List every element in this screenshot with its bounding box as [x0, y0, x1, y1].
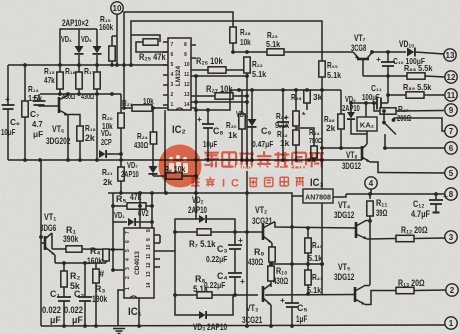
junction R22 top [245, 50, 249, 54]
junction KA2 top [364, 101, 368, 105]
diode VD4 [75, 46, 84, 54]
junction R2 top [62, 261, 66, 265]
resistor R17 [94, 72, 100, 89]
transistor VT3 [263, 284, 271, 305]
wire R18 top lead [68, 115, 80, 127]
wire C9 bottom lead [282, 126, 284, 160]
resistor R32 [293, 130, 299, 145]
wire R16 top lead [78, 65, 80, 72]
junction on emitter net [290, 262, 294, 266]
wire R19 top lead [112, 35, 117, 37]
wire R9 bottom lead [271, 262, 273, 264]
resistor R18 [77, 126, 83, 141]
junction on supply bus [58, 63, 62, 67]
wire emitter to R88 [363, 75, 407, 77]
wire R18 bottom lead [79, 141, 81, 160]
wire R41 bottom lead [307, 285, 309, 294]
resistor R25 [143, 39, 158, 45]
resistor R10 [268, 266, 274, 281]
wire C4 bottom lead [234, 277, 236, 295]
resistor R87 [380, 108, 396, 114]
junction VD2 right on R7 wire [233, 230, 237, 234]
wire R13 to terminal 2 [414, 289, 446, 292]
junction R98 top [305, 88, 309, 92]
junction R84 bottom [312, 158, 316, 162]
wire net6 right part [385, 147, 445, 149]
capacitor C4 [228, 273, 242, 277]
wire R3 bottom lead [95, 283, 97, 326]
junction on emitter bus [294, 158, 298, 162]
wire R89 to terminal 11 [424, 94, 445, 96]
wire R5 right rail [151, 193, 153, 228]
resistor R23 [132, 105, 152, 111]
wire R2 top lead [63, 263, 65, 271]
junction on 193 bus [138, 191, 142, 195]
resistor R13 [396, 287, 414, 293]
junction VD9 top [349, 101, 353, 105]
junction on emitter bus [240, 158, 244, 162]
wire base drive [233, 51, 353, 53]
junction VT7 collector [370, 50, 374, 54]
wire R10 bottom lead [270, 281, 272, 287]
resistor R11 [367, 201, 373, 216]
wire R23 wire [124, 107, 168, 109]
junction y102 right [245, 100, 249, 104]
junction on emitter bus [38, 158, 42, 162]
capacitor C11 [377, 97, 381, 110]
wire C7 to VT6 base [39, 105, 58, 106]
wire to VD10 [388, 51, 406, 53]
wire R95 bottom rail [321, 77, 323, 294]
wire C7 top lead [38, 94, 40, 101]
junction VT1 base [39, 235, 43, 239]
junction VD6 to R20 rail [119, 152, 123, 156]
terminal pin 5 [445, 167, 457, 179]
junction on supply bus [122, 63, 126, 67]
resistor R26 [208, 67, 226, 73]
resistor R6 [166, 173, 182, 179]
wire IC2 right pin stubs [191, 45, 196, 108]
wire diode string top [60, 29, 97, 65]
capacitor C12 end bar [433, 212, 440, 214]
junction on net 6 rail [320, 146, 324, 150]
transistor VT8 [362, 144, 370, 162]
junction line A to R23 [122, 106, 126, 110]
wire R15 top lead [59, 65, 61, 72]
junction VD6 rail bottom [95, 158, 99, 162]
wire rail IC2 pin1 down [164, 110, 166, 193]
arrow VT6 emitter [64, 112, 69, 116]
wire R84 bottom lead [313, 158, 315, 160]
junction R87 corner [372, 101, 376, 105]
junction R89 node [386, 93, 390, 97]
wire VD6 left lead [96, 94, 98, 160]
junction R5 right [150, 204, 154, 208]
wire VD2 loop [175, 219, 199, 232]
wire C5 bottom lead [291, 307, 293, 326]
resistor R15 [57, 72, 63, 89]
junction on emitter bus [307, 158, 311, 162]
wire R20 bottom lead [120, 128, 122, 167]
junction R6 right [194, 174, 198, 178]
wire feedback line B to R95 [131, 21, 322, 65]
junction on ground bus [62, 324, 66, 328]
wire KA2 top lead [365, 103, 367, 117]
wire R5 right lead [146, 205, 152, 207]
terminal pin 7 [445, 125, 457, 137]
capacitor C9 [277, 122, 289, 126]
wire R14 bottom lead [24, 117, 26, 160]
resistor R14 [22, 101, 28, 117]
op-amp IC2 LM324 body [168, 38, 191, 110]
junction mid bus [250, 88, 254, 92]
transistor VT5 [355, 286, 370, 305]
wire R5 wire [113, 205, 127, 207]
junction R7 left [173, 230, 177, 234]
resistor R28 [230, 27, 236, 43]
wire R87 wire corner [374, 103, 380, 111]
diode VD3 [199, 311, 206, 319]
junction C12 node [434, 192, 438, 196]
wire IC1 pin link a [159, 235, 161, 243]
terminal pin 13 [444, 49, 456, 61]
wire VD3 loop left [175, 232, 199, 315]
wire VT5 base [265, 294, 355, 297]
junction R5 left [111, 204, 115, 208]
wire mid bus upper [230, 89, 341, 91]
terminal pin 6 [445, 142, 457, 154]
wire R24 bottom lead [152, 144, 154, 166]
junction rail top [194, 74, 198, 78]
wire C8 top lead [207, 110, 209, 124]
wire VT8 emitter to net5 [370, 162, 445, 173]
wire R32 bottom lead [295, 145, 297, 160]
wire main rail x247 [246, 73, 248, 326]
wire collector rail VT4-VT5 [369, 216, 371, 285]
junction on bias bus [110, 92, 114, 96]
capacitor C5 [285, 303, 299, 307]
wire IC3 right pin [333, 194, 346, 197]
wire base bias bus [40, 93, 121, 95]
junction on 193 bus [164, 191, 168, 195]
junction on emitter bus [245, 158, 249, 162]
resistor R2 [61, 271, 67, 287]
wire net6 left part [322, 147, 361, 149]
resistor R4 [103, 249, 109, 261]
capacitor C7 [33, 101, 46, 105]
wire VT6 collector [59, 94, 68, 100]
diode VD9 [347, 112, 355, 119]
pin numbers IC1 right [146, 229, 152, 288]
wire KA2 bottom lead [366, 131, 368, 137]
wire R1 right lead [82, 248, 113, 251]
junction contact top [382, 109, 386, 113]
junction R41 bottom [306, 292, 310, 296]
resistor R89 [406, 92, 424, 98]
wire R40 bottom lead [307, 253, 309, 264]
wire R16 bottom lead [78, 89, 80, 94]
wire C11 wire [351, 102, 377, 104]
relay coil KA2 [357, 117, 377, 131]
wire IC2 left pin stubs [163, 42, 168, 105]
capacitor C10 [381, 62, 395, 66]
resistor R16 [76, 72, 82, 89]
wire R26 to rail [226, 69, 247, 71]
ground symbol [113, 329, 125, 334]
wire feedback line A to R28 [124, 12, 233, 108]
wire R2 bottom lead [63, 287, 65, 297]
wire R84 tap [296, 128, 314, 146]
resistor R1 [66, 246, 82, 252]
wire C12 stub [435, 204, 437, 212]
wire R20 top lead [120, 94, 122, 113]
wire C11 right [381, 102, 388, 104]
diode VD7 [149, 166, 158, 174]
junction on supply bus [129, 63, 133, 67]
wire R17 top lead [96, 65, 98, 72]
wire IC1 top pin a [139, 193, 141, 228]
wire VD4 top lead [78, 29, 80, 46]
flip-flop IC1 CD4013 body [124, 228, 154, 298]
pin numbers IC2 left [171, 42, 174, 108]
watermark main text (fake CJK glyphs) [204, 151, 324, 167]
wire R5 left rail [112, 193, 114, 271]
junction on ground bus [290, 324, 294, 328]
junction on supply bus [110, 63, 114, 67]
wire VT7 emitter down [362, 60, 364, 76]
wire VT3 emitter down [270, 305, 272, 326]
terminal pin 8 [445, 188, 457, 200]
pin numbers IC1 left [125, 231, 131, 290]
junction mid bus [320, 88, 324, 92]
wire VT2 emitter [271, 243, 273, 247]
wire C10 top lead [387, 52, 389, 62]
wire C9 top lead [282, 90, 284, 122]
capacitor C3 [228, 245, 242, 249]
wire IC1 pin link b [160, 250, 175, 252]
transistor VT7 [353, 52, 372, 59]
junction on emitter bus [194, 158, 198, 162]
capacitor C12 [429, 200, 443, 204]
transistor VT6 [58, 97, 61, 113]
pin numbers IC2 right [184, 42, 190, 108]
wire C1 bottom lead [63, 301, 65, 326]
wire R86 top lead [340, 90, 342, 114]
wire R4 bottom lead [105, 261, 107, 263]
wire bus net to IC3 [108, 193, 303, 196]
junction on emitter bus [206, 158, 210, 162]
junction on emitter bus [78, 158, 82, 162]
wire R19 vertical leads [111, 36, 113, 46]
junction on bias bus [66, 92, 70, 96]
wire contact to terminal 7 [394, 118, 445, 131]
capacitor C1 [57, 297, 71, 301]
junction x113 y249 [111, 248, 115, 252]
wire VD9 bottom [351, 120, 367, 135]
junction on emitter net [306, 262, 310, 266]
wire C6 top lead [7, 65, 9, 105]
junction R5 crossing [138, 204, 142, 208]
transistor VT2 [263, 222, 275, 244]
wire VT6 emitter [59, 110, 68, 160]
junction VT4 collector [368, 219, 372, 223]
wire R28 bottom lead [232, 43, 234, 52]
transistor VT1 [41, 233, 55, 255]
capacitor C6 [2, 105, 15, 109]
wire VD9 top lead [350, 103, 352, 112]
capacitor C8 [202, 124, 214, 128]
junction pin4 node [368, 192, 372, 196]
wire rail from R26 down [195, 76, 197, 219]
junction on emitter bus [320, 158, 324, 162]
wire C2 top lead [84, 263, 86, 297]
terminal pin 10 [111, 2, 123, 14]
resistor R3 [93, 269, 99, 283]
wire VD1 right lead [136, 221, 152, 223]
junction on emitter bus [23, 158, 27, 162]
junction on 193 bus [245, 191, 249, 195]
wire R87 to terminal 9 [396, 110, 444, 113]
resistor R40 [305, 238, 311, 253]
watermark slogan text (fake CJK glyphs) [191, 177, 304, 190]
transistor VT4 [356, 221, 370, 240]
wire VD6 right lead [106, 153, 121, 155]
junction R23/R24 node [151, 106, 155, 110]
wire VT1 emitter node [54, 255, 56, 263]
junction mid bus [281, 88, 285, 92]
junction C4 bottom [233, 293, 237, 297]
terminal pin 11 [445, 89, 457, 101]
wire R14 top lead [24, 65, 26, 101]
wire C2 bottom lead [84, 301, 86, 326]
junction on ground bus [83, 324, 87, 328]
wire VD7 bottom lead [152, 174, 154, 176]
wire R26 lead [196, 69, 208, 71]
wire op-amp input loop [131, 35, 160, 42]
wire R88 to terminal 12 [425, 76, 445, 77]
resistor R84 [311, 146, 317, 158]
wire R41 top lead [307, 264, 309, 270]
wire VD10 to terminal 13 [415, 52, 444, 54]
resistor R95 [319, 61, 325, 77]
wire VT4 emitter [367, 238, 396, 241]
wire R8 net [175, 294, 258, 296]
wire R6 right lead [182, 175, 196, 177]
junction C2 top [83, 261, 87, 265]
resistor R98 [304, 90, 310, 103]
junction mid bus [294, 88, 298, 92]
resistor R9 [269, 247, 275, 262]
wire R30 bottom lead [241, 129, 243, 160]
wire IC1 ground pin [118, 290, 126, 326]
wire VT1 collector stub [51, 233, 53, 249]
wire R98 bottom lead [306, 103, 308, 110]
wire to terminal 8 [346, 193, 445, 195]
resistor R19 [109, 46, 115, 61]
watermark logo [159, 145, 202, 188]
wire VT8 collector up [366, 137, 368, 144]
junction VD1 right [150, 220, 154, 224]
wire supply bus [8, 64, 168, 66]
wire R17 bottom lead [96, 89, 98, 94]
resistor R27 [215, 93, 233, 99]
diode VD1 [128, 218, 135, 226]
junction on bias bus [77, 92, 81, 96]
terminal pin 12 [445, 71, 457, 83]
wire R19 bottom lead [111, 61, 113, 65]
wire oscillator node wire [55, 262, 106, 264]
junction on ground bus [94, 324, 98, 328]
resistor R20 [118, 113, 124, 128]
wire VD1 left lead [113, 221, 127, 223]
wire R1 left lead [52, 248, 66, 250]
terminal pin 3 [445, 231, 457, 243]
junction rail x247 on base net [245, 230, 249, 234]
junction on 193 bus [194, 191, 198, 195]
junction on emitter bus [66, 158, 70, 162]
wire IC1 pin stub y249 [113, 249, 126, 251]
wire IC2 pin wire y76 [191, 75, 247, 77]
junction R40 top [306, 226, 310, 230]
wire VT7 collector to C10 node [372, 51, 388, 53]
junction on emitter bus [250, 158, 254, 162]
junction on ground bus [245, 324, 249, 328]
capacitor C2 [78, 297, 92, 301]
wire IC2 pin wire y102 [191, 101, 247, 103]
wire mid bus corner [196, 90, 230, 110]
wire VD2 right [207, 219, 235, 245]
junction on emitter net [320, 262, 324, 266]
junction R8 left [173, 293, 177, 297]
junction on net 6 rail [339, 146, 343, 150]
regulator IC3 AN7808 body [303, 189, 333, 203]
wire R15 bottom lead [59, 89, 61, 94]
terminal pin 4 [365, 177, 377, 189]
junction C10 top [386, 50, 390, 54]
junction R28 bottom [231, 50, 235, 54]
wire C8 bottom lead [207, 128, 209, 160]
wire R3 top lead [95, 263, 97, 269]
wire VT5 emitter loop [365, 291, 396, 305]
wire VT1 base rail [40, 160, 42, 326]
terminal pin 1 [445, 317, 457, 329]
wire rail x292 down to C5 [291, 196, 293, 303]
terminal pin 9 [445, 104, 457, 116]
wire IC1 bottom lead [138, 298, 140, 326]
junction rail x196 y110 [194, 108, 198, 112]
wire emitter bus [8, 159, 362, 161]
resistor R5 [127, 203, 146, 209]
wire R81 top lead [295, 90, 297, 111]
junction on 193 bus [150, 191, 154, 195]
wire R6 left lead [153, 175, 166, 177]
wire C6 bottom lead [7, 109, 9, 160]
junction on emitter net [269, 262, 273, 266]
wire contact arm down [384, 134, 386, 148]
resistor R41 [305, 270, 311, 285]
resistor R88 [407, 73, 425, 79]
resistor R21 [118, 167, 124, 181]
wire VD3 right [207, 295, 233, 315]
wire C10 bottom / column [387, 66, 389, 103]
junction C8 top [206, 108, 210, 112]
wire VD8 top lead [251, 90, 253, 119]
junction contact arm on net6 [383, 146, 387, 150]
resistor R8 [197, 292, 212, 298]
junction rail y102 [194, 100, 198, 104]
wire VT2 collector [275, 222, 355, 228]
wire VD8 bottom lead [251, 128, 253, 161]
